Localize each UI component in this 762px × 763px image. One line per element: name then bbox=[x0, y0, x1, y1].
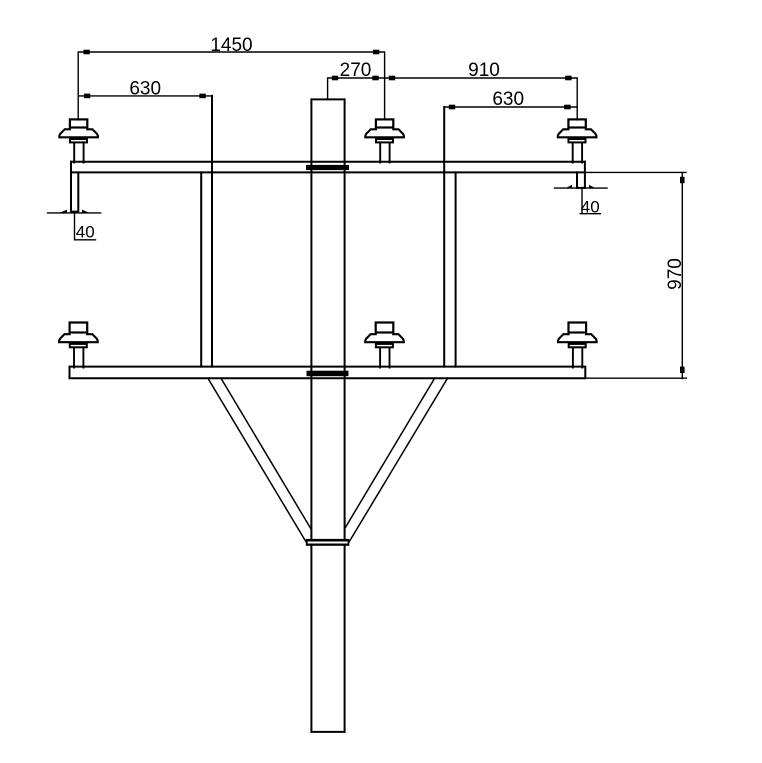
left V-brace bbox=[208, 378, 312, 541]
dimension 40 left arrows bbox=[59, 210, 91, 214]
svg-text:270: 270 bbox=[340, 60, 372, 81]
upper crossarm bbox=[71, 162, 585, 173]
dimension 970 tick dots bbox=[680, 177, 685, 373]
insulator L3 (lower right) bbox=[558, 323, 597, 368]
svg-text:1450: 1450 bbox=[210, 35, 252, 56]
left bay vertical member bbox=[201, 96, 212, 367]
dimension 1450 tick dots bbox=[83, 50, 379, 55]
svg-text:910: 910 bbox=[468, 60, 500, 81]
dimension 630 right bbox=[444, 106, 577, 108]
dimension 270 and 910 bbox=[328, 78, 578, 120]
dimension 630 left tick dots bbox=[84, 94, 206, 99]
dimension 630 right tick dots bbox=[449, 105, 571, 110]
brace collar band on pole bbox=[306, 539, 350, 546]
dimension 1450 bbox=[78, 52, 384, 120]
svg-text:40: 40 bbox=[76, 223, 95, 242]
right bay vertical member bbox=[444, 107, 455, 367]
insulator L2 (lower middle) bbox=[365, 323, 404, 368]
svg-text:970: 970 bbox=[665, 258, 686, 290]
dimension 970 vertical bbox=[585, 172, 686, 378]
svg-text:40: 40 bbox=[581, 197, 600, 216]
dimension 40 right arrows bbox=[565, 185, 596, 189]
upper crossarm right end plate bbox=[577, 162, 585, 188]
svg-text:630: 630 bbox=[492, 89, 524, 110]
insulator U3 (upper right) bbox=[558, 119, 597, 162]
insulator L1 (lower left) bbox=[59, 323, 98, 368]
dimension 270/910 tick dots bbox=[332, 76, 572, 81]
right V-brace bbox=[345, 378, 448, 542]
svg-text:630: 630 bbox=[129, 79, 161, 100]
dimension 630 left bbox=[78, 95, 212, 97]
insulator U2 (upper middle) bbox=[365, 119, 404, 162]
lower crossarm-pole junction band bbox=[307, 371, 349, 377]
dimension 40 right bbox=[555, 188, 608, 214]
upper crossarm-pole junction band bbox=[306, 165, 349, 170]
upper crossarm left end plate bbox=[71, 162, 78, 212]
insulator U1 (upper left) bbox=[59, 119, 98, 162]
pole bbox=[311, 99, 344, 732]
dimension 40 left bbox=[48, 213, 101, 240]
lower crossarm bbox=[70, 367, 586, 379]
